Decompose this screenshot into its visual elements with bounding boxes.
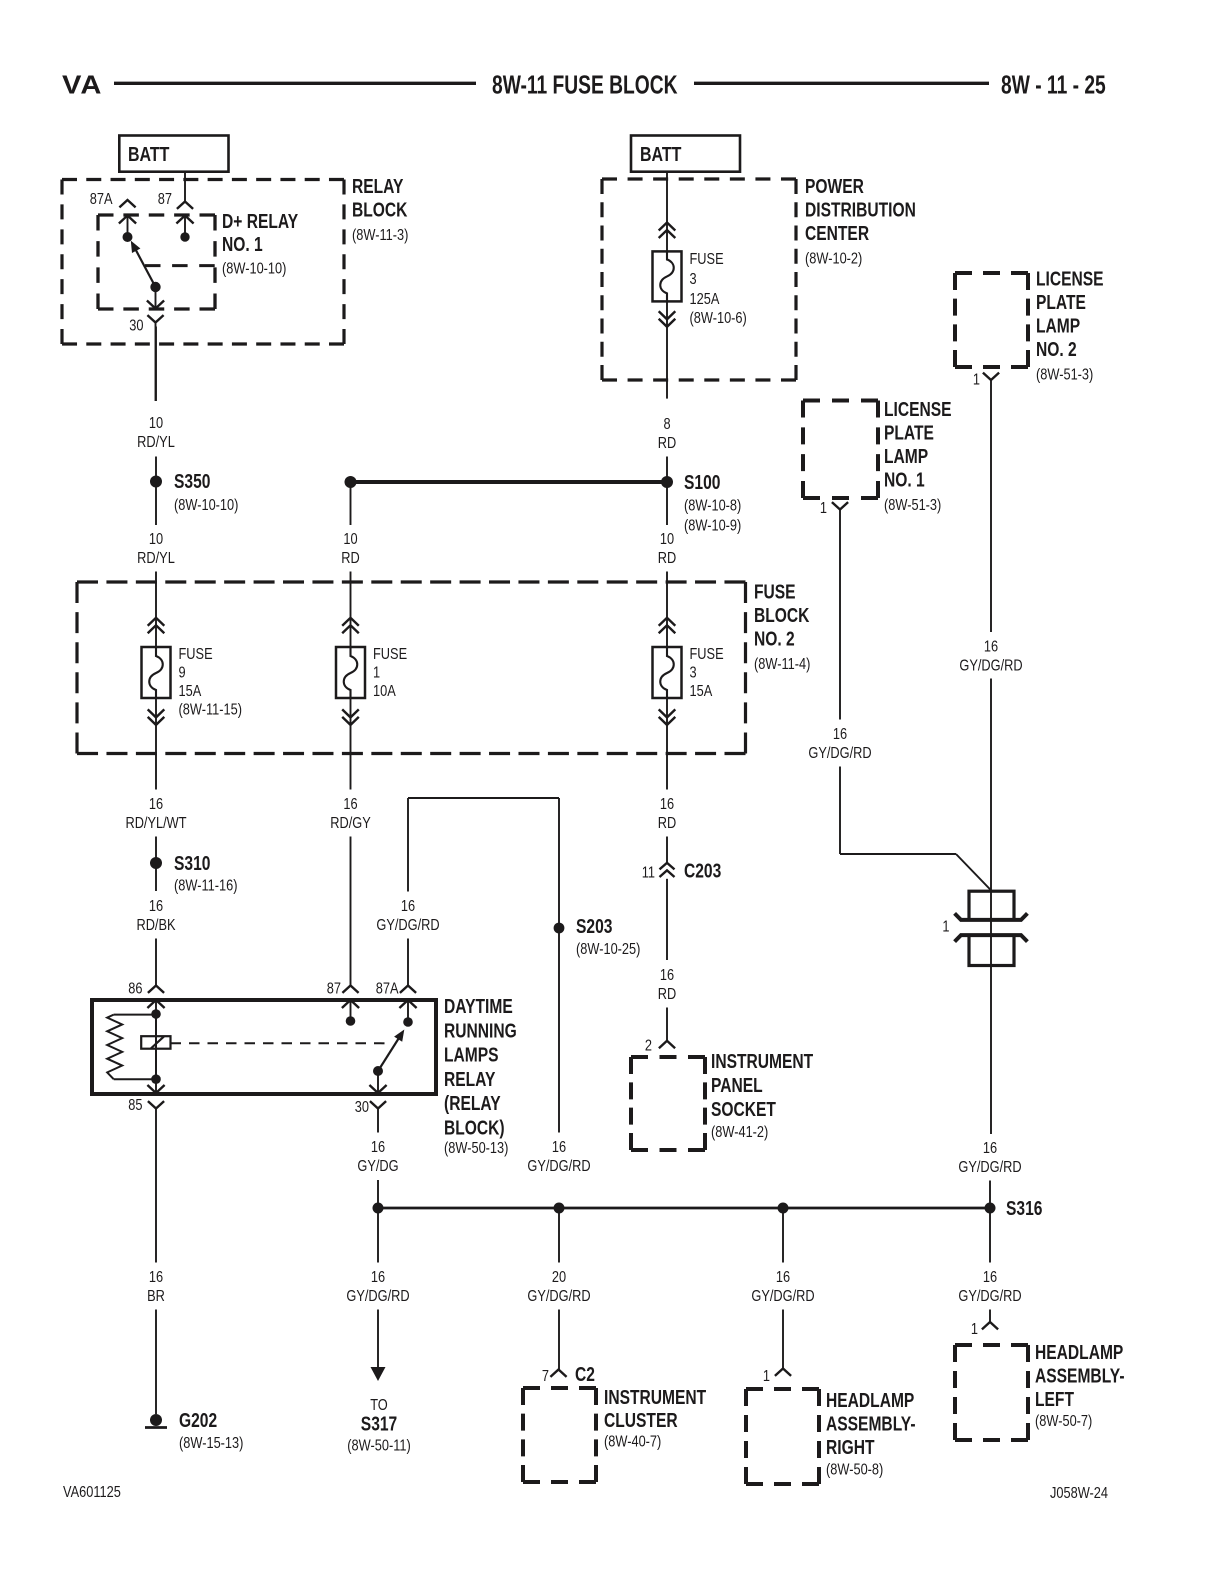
svg-text:10: 10 bbox=[149, 531, 163, 549]
svg-text:S350: S350 bbox=[174, 470, 210, 492]
svg-text:S317: S317 bbox=[361, 1413, 397, 1435]
svg-text:16: 16 bbox=[552, 1139, 566, 1157]
svg-text:S316: S316 bbox=[1006, 1197, 1042, 1219]
svg-text:RD: RD bbox=[658, 815, 676, 833]
svg-text:RIGHT: RIGHT bbox=[826, 1436, 875, 1458]
svg-text:(8W-10-25): (8W-10-25) bbox=[576, 941, 640, 959]
svg-text:NO. 1: NO. 1 bbox=[884, 469, 925, 491]
svg-text:(8W-10-10): (8W-10-10) bbox=[222, 260, 286, 278]
svg-text:1: 1 bbox=[942, 918, 949, 936]
svg-text:GY/DG: GY/DG bbox=[357, 1158, 398, 1176]
svg-text:ASSEMBLY-: ASSEMBLY- bbox=[1035, 1365, 1125, 1387]
svg-text:10A: 10A bbox=[373, 683, 396, 701]
svg-text:(8W-50-7): (8W-50-7) bbox=[1035, 1413, 1092, 1431]
svg-text:INSTRUMENT: INSTRUMENT bbox=[711, 1050, 813, 1072]
svg-text:9: 9 bbox=[179, 664, 186, 682]
svg-text:(8W-51-3): (8W-51-3) bbox=[884, 497, 941, 515]
svg-text:(8W-10-9): (8W-10-9) bbox=[684, 517, 741, 535]
svg-text:FUSE: FUSE bbox=[754, 581, 796, 603]
svg-text:LICENSE: LICENSE bbox=[1036, 268, 1104, 290]
svg-text:RD: RD bbox=[658, 435, 676, 453]
svg-text:J058W-24: J058W-24 bbox=[1050, 1485, 1108, 1503]
svg-text:NO. 2: NO. 2 bbox=[754, 628, 795, 650]
svg-text:(8W-10-8): (8W-10-8) bbox=[684, 497, 741, 515]
svg-text:10: 10 bbox=[343, 531, 357, 549]
svg-text:(8W-11-15): (8W-11-15) bbox=[179, 701, 242, 719]
svg-text:LAMPS: LAMPS bbox=[444, 1044, 499, 1066]
svg-text:POWER: POWER bbox=[805, 175, 864, 197]
svg-text:CENTER: CENTER bbox=[805, 222, 869, 244]
svg-text:RD/YL/WT: RD/YL/WT bbox=[125, 815, 186, 833]
svg-text:8: 8 bbox=[663, 416, 670, 434]
svg-text:16: 16 bbox=[833, 726, 847, 744]
svg-text:87: 87 bbox=[158, 191, 172, 209]
svg-text:FUSE: FUSE bbox=[179, 646, 213, 664]
svg-text:INSTRUMENT: INSTRUMENT bbox=[604, 1386, 706, 1408]
svg-text:8W-11 FUSE BLOCK: 8W-11 FUSE BLOCK bbox=[492, 70, 678, 100]
svg-text:1: 1 bbox=[373, 664, 380, 682]
svg-text:16: 16 bbox=[660, 796, 674, 814]
svg-text:BLOCK): BLOCK) bbox=[444, 1116, 505, 1138]
svg-text:BATT: BATT bbox=[640, 142, 682, 165]
svg-text:PLATE: PLATE bbox=[884, 422, 934, 444]
svg-text:20: 20 bbox=[552, 1269, 566, 1287]
svg-text:BLOCK: BLOCK bbox=[352, 199, 407, 221]
svg-text:7: 7 bbox=[542, 1368, 549, 1386]
svg-text:BR: BR bbox=[147, 1288, 165, 1306]
svg-text:RD: RD bbox=[658, 986, 676, 1004]
svg-text:(8W-50-8): (8W-50-8) bbox=[826, 1461, 883, 1479]
svg-text:10: 10 bbox=[660, 531, 674, 549]
svg-text:GY/DG/RD: GY/DG/RD bbox=[527, 1288, 590, 1306]
svg-text:S310: S310 bbox=[174, 852, 210, 874]
svg-text:(8W-10-2): (8W-10-2) bbox=[805, 250, 862, 268]
svg-text:(8W-50-11): (8W-50-11) bbox=[347, 1437, 410, 1455]
svg-text:RD: RD bbox=[658, 550, 676, 568]
svg-text:3: 3 bbox=[690, 271, 697, 289]
svg-text:RD/YL: RD/YL bbox=[137, 550, 175, 568]
svg-text:125A: 125A bbox=[690, 291, 720, 309]
svg-text:11: 11 bbox=[642, 864, 655, 882]
svg-text:16: 16 bbox=[983, 1140, 997, 1158]
svg-text:16: 16 bbox=[371, 1269, 385, 1287]
svg-text:(8W-11-16): (8W-11-16) bbox=[174, 877, 237, 895]
svg-text:VA: VA bbox=[62, 70, 103, 99]
svg-text:HEADLAMP: HEADLAMP bbox=[826, 1389, 914, 1411]
svg-text:VA601125: VA601125 bbox=[63, 1484, 121, 1502]
svg-text:(8W-40-7): (8W-40-7) bbox=[604, 1433, 661, 1451]
svg-text:(8W-15-13): (8W-15-13) bbox=[179, 1435, 243, 1453]
svg-text:LAMP: LAMP bbox=[1036, 315, 1080, 337]
svg-text:LAMP: LAMP bbox=[884, 445, 928, 467]
svg-text:(8W-10-10): (8W-10-10) bbox=[174, 497, 238, 515]
svg-text:RELAY: RELAY bbox=[352, 175, 403, 197]
svg-text:30: 30 bbox=[129, 317, 143, 335]
svg-text:C2: C2 bbox=[575, 1363, 595, 1385]
svg-text:RUNNING: RUNNING bbox=[444, 1019, 517, 1041]
svg-text:BLOCK: BLOCK bbox=[754, 604, 809, 626]
svg-text:(8W-11-3): (8W-11-3) bbox=[352, 227, 408, 245]
svg-text:RELAY: RELAY bbox=[444, 1068, 495, 1090]
svg-text:1: 1 bbox=[971, 1321, 978, 1339]
svg-text:FUSE: FUSE bbox=[690, 251, 724, 269]
svg-text:85: 85 bbox=[128, 1097, 142, 1115]
svg-text:DAYTIME: DAYTIME bbox=[444, 995, 513, 1017]
svg-text:16: 16 bbox=[983, 1269, 997, 1287]
svg-text:16: 16 bbox=[371, 1139, 385, 1157]
svg-text:8W - 11 - 25: 8W - 11 - 25 bbox=[1001, 70, 1106, 100]
svg-text:RD/GY: RD/GY bbox=[330, 815, 371, 833]
svg-text:FUSE: FUSE bbox=[690, 646, 724, 664]
svg-text:2: 2 bbox=[645, 1037, 652, 1055]
svg-text:16: 16 bbox=[149, 796, 163, 814]
svg-text:LICENSE: LICENSE bbox=[884, 398, 952, 420]
svg-text:1: 1 bbox=[820, 500, 827, 518]
svg-text:SOCKET: SOCKET bbox=[711, 1098, 776, 1120]
svg-text:PANEL: PANEL bbox=[711, 1074, 763, 1096]
svg-text:BATT: BATT bbox=[128, 142, 170, 165]
svg-text:GY/DG/RD: GY/DG/RD bbox=[527, 1158, 590, 1176]
svg-text:GY/DG/RD: GY/DG/RD bbox=[751, 1288, 814, 1306]
svg-text:(8W-41-2): (8W-41-2) bbox=[711, 1124, 768, 1142]
svg-text:1: 1 bbox=[973, 371, 980, 389]
svg-text:RD: RD bbox=[341, 550, 359, 568]
svg-text:(8W-51-3): (8W-51-3) bbox=[1036, 366, 1093, 384]
svg-text:3: 3 bbox=[690, 664, 697, 682]
svg-text:16: 16 bbox=[401, 898, 415, 916]
svg-text:15A: 15A bbox=[690, 683, 713, 701]
svg-text:GY/DG/RD: GY/DG/RD bbox=[958, 1288, 1021, 1306]
svg-text:DISTRIBUTION: DISTRIBUTION bbox=[805, 199, 916, 221]
svg-text:G202: G202 bbox=[179, 1409, 217, 1431]
svg-text:16: 16 bbox=[984, 638, 998, 656]
svg-text:87A: 87A bbox=[376, 980, 399, 998]
svg-text:(8W-10-6): (8W-10-6) bbox=[690, 310, 747, 328]
svg-text:10: 10 bbox=[149, 415, 163, 433]
svg-text:16: 16 bbox=[776, 1269, 790, 1287]
svg-text:87: 87 bbox=[327, 980, 341, 998]
svg-text:16: 16 bbox=[149, 898, 163, 916]
svg-text:(RELAY: (RELAY bbox=[444, 1092, 501, 1114]
svg-text:D+ RELAY: D+ RELAY bbox=[222, 210, 298, 232]
svg-text:30: 30 bbox=[355, 1099, 369, 1117]
svg-text:NO. 1: NO. 1 bbox=[222, 233, 263, 255]
svg-text:GY/DG/RD: GY/DG/RD bbox=[959, 657, 1022, 675]
svg-text:FUSE: FUSE bbox=[373, 646, 407, 664]
svg-text:16: 16 bbox=[660, 967, 674, 985]
svg-text:C203: C203 bbox=[684, 860, 721, 882]
svg-text:(8W-11-4): (8W-11-4) bbox=[754, 656, 810, 674]
svg-text:NO. 2: NO. 2 bbox=[1036, 338, 1077, 360]
svg-text:LEFT: LEFT bbox=[1035, 1388, 1074, 1410]
svg-text:GY/DG/RD: GY/DG/RD bbox=[376, 917, 439, 935]
svg-text:RD/BK: RD/BK bbox=[136, 917, 175, 935]
svg-text:S203: S203 bbox=[576, 915, 612, 937]
svg-text:86: 86 bbox=[128, 980, 142, 998]
svg-text:HEADLAMP: HEADLAMP bbox=[1035, 1341, 1123, 1363]
svg-text:GY/DG/RD: GY/DG/RD bbox=[346, 1288, 409, 1306]
svg-text:16: 16 bbox=[149, 1269, 163, 1287]
svg-text:CLUSTER: CLUSTER bbox=[604, 1409, 678, 1431]
svg-text:16: 16 bbox=[343, 796, 357, 814]
svg-text:GY/DG/RD: GY/DG/RD bbox=[808, 745, 871, 763]
svg-text:GY/DG/RD: GY/DG/RD bbox=[958, 1159, 1021, 1177]
svg-text:PLATE: PLATE bbox=[1036, 291, 1086, 313]
svg-text:87A: 87A bbox=[90, 191, 113, 209]
svg-text:RD/YL: RD/YL bbox=[137, 434, 175, 452]
svg-text:1: 1 bbox=[763, 1368, 770, 1386]
svg-text:ASSEMBLY-: ASSEMBLY- bbox=[826, 1413, 916, 1435]
svg-text:S100: S100 bbox=[684, 471, 720, 493]
svg-text:(8W-50-13): (8W-50-13) bbox=[444, 1140, 508, 1158]
svg-text:15A: 15A bbox=[179, 683, 202, 701]
